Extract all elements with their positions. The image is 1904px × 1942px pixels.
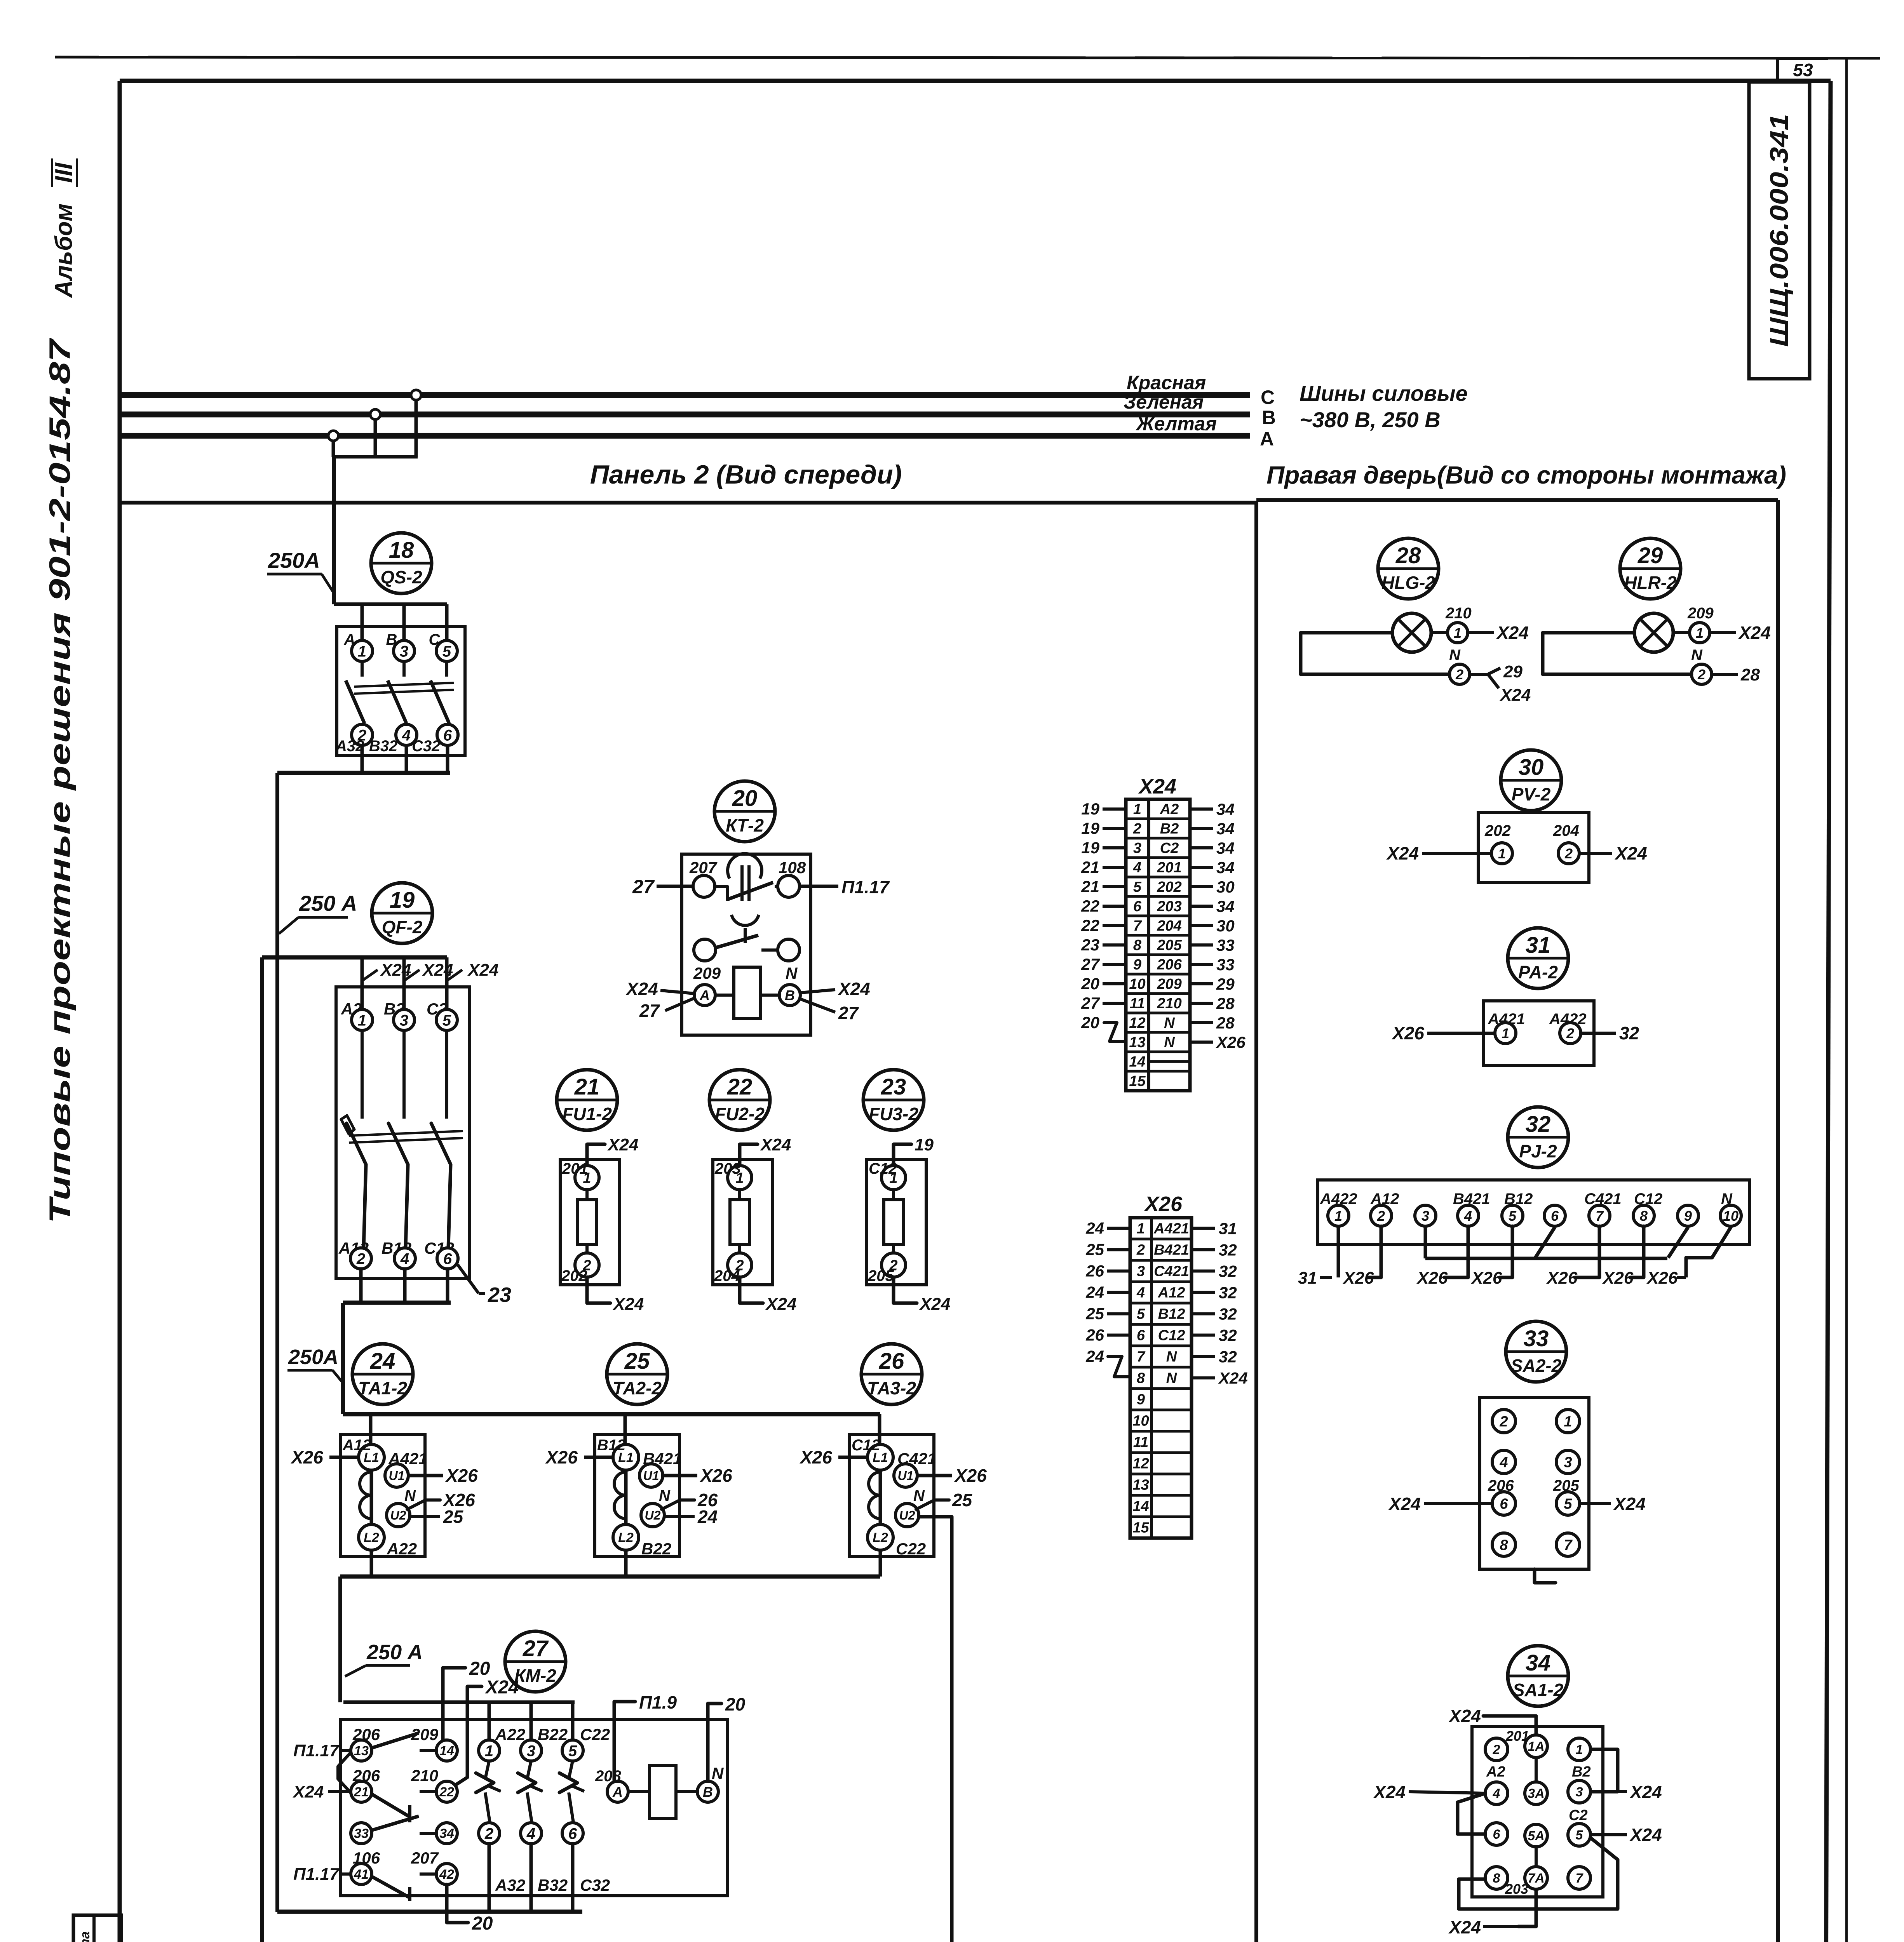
svg-text:24: 24 <box>1085 1347 1104 1366</box>
designator circle 26 ТА3-2 <box>861 1344 922 1404</box>
wire X24 terminal 2 to 34 <box>1191 820 1235 838</box>
svg-text:9: 9 <box>1684 1208 1692 1224</box>
svg-text:19: 19 <box>1081 839 1099 857</box>
SA1-2 terminal 3А <box>1525 1782 1547 1805</box>
svg-text:25: 25 <box>1085 1305 1104 1323</box>
KT-2 upper contact terminals <box>693 875 800 897</box>
svg-text:32: 32 <box>1526 1112 1551 1137</box>
SA2-2 terminal 2 <box>1492 1410 1516 1433</box>
svg-text:SА1-2: SА1-2 <box>1513 1680 1564 1700</box>
svg-text:Х24: Х24 <box>837 979 870 999</box>
wire X26 terminal 4 to 32 <box>1193 1284 1237 1302</box>
KM-2 aux contact 22 <box>436 1781 457 1802</box>
designator circle 21 FU1-2 <box>557 1070 617 1130</box>
svg-text:Х24: Х24 <box>1629 1825 1662 1845</box>
meter PJ-2 body <box>1318 1180 1749 1244</box>
svg-text:201: 201 <box>562 1160 588 1177</box>
QS-2 switch blades and linkage <box>346 661 454 723</box>
svg-text:250А: 250А <box>268 548 320 573</box>
wire X24 terminal 1 to 34 <box>1191 800 1235 818</box>
svg-text:N: N <box>659 1487 671 1504</box>
svg-text:В22: В22 <box>538 1725 568 1744</box>
svg-text:U2: U2 <box>899 1509 915 1523</box>
wire: P1.17 to KM-2 contact 13 <box>293 1741 351 1760</box>
svg-text:Х24: Х24 <box>1373 1782 1406 1802</box>
svg-text:6: 6 <box>443 1250 452 1267</box>
svg-text:А32: А32 <box>495 1876 525 1894</box>
wire: X24 to PV-2 terminal 1 <box>1386 843 1491 863</box>
circuit breaker QF-2 body <box>336 987 469 1279</box>
FU2-2 terminal 2 <box>728 1253 752 1277</box>
svg-text:В32: В32 <box>369 738 397 755</box>
SA1-2 terminal 3 <box>1568 1780 1590 1803</box>
svg-text:РЈ-2: РЈ-2 <box>1519 1141 1557 1161</box>
wire X26 terminal 3 to 32 <box>1193 1262 1237 1281</box>
svg-text:32: 32 <box>1619 1023 1639 1043</box>
svg-text:13: 13 <box>354 1744 369 1758</box>
wire 23 to X24 terminal 8 <box>1081 936 1125 954</box>
ТА1-2 terminal L2 <box>359 1524 384 1550</box>
svg-text:20: 20 <box>472 1913 493 1934</box>
PJ-2 terminal 4 <box>1458 1205 1479 1226</box>
svg-text:4: 4 <box>526 1825 535 1842</box>
svg-text:22: 22 <box>439 1785 454 1799</box>
svg-text:N: N <box>1691 647 1703 664</box>
ТА1-2 terminal U2 <box>387 1503 410 1527</box>
svg-text:1А: 1А <box>1528 1739 1544 1754</box>
svg-text:U1: U1 <box>898 1469 914 1483</box>
svg-text:11: 11 <box>1130 995 1145 1012</box>
panel 2 enclosure box <box>121 501 1256 1942</box>
svg-text:24: 24 <box>370 1349 395 1374</box>
svg-text:N: N <box>1164 1015 1175 1031</box>
svg-text:14: 14 <box>439 1744 454 1758</box>
svg-text:204: 204 <box>714 1267 740 1284</box>
svg-text:Зеленая: Зеленая <box>1124 391 1204 413</box>
fuse FU3-2 body <box>867 1159 926 1285</box>
KM-2 main contact 2 <box>479 1823 500 1844</box>
SA2-2 terminal 6 <box>1492 1492 1516 1515</box>
svg-text:N: N <box>1166 1370 1178 1387</box>
svg-text:250 А: 250 А <box>366 1641 423 1664</box>
svg-text:204: 204 <box>1553 822 1579 839</box>
svg-text:С421: С421 <box>1154 1263 1189 1280</box>
wire: SA2-2 terminal 5 to X24 <box>1580 1494 1646 1514</box>
switch QS-2 body <box>337 626 465 755</box>
svg-text:6: 6 <box>1551 1208 1559 1224</box>
svg-text:Х26: Х26 <box>290 1447 323 1467</box>
svg-text:Х24: Х24 <box>1386 843 1419 863</box>
wire 26 to X26 terminal 6 <box>1085 1326 1129 1344</box>
svg-text:210: 210 <box>411 1766 438 1785</box>
SA2-2 bottom stub <box>1535 1569 1556 1583</box>
svg-text:3: 3 <box>1564 1455 1572 1471</box>
wire: HLG-2 terminal 1 to X24 <box>1468 623 1529 643</box>
wire X24 terminal 12 to 28 <box>1191 1014 1235 1032</box>
wire: KT-2 right upper terminal to P1.17 <box>800 877 890 897</box>
wire X24 terminal 11 to 28 <box>1191 994 1235 1013</box>
PA-2 terminal 2 <box>1560 1023 1581 1044</box>
SA1-2 terminal 7А <box>1525 1867 1547 1889</box>
svg-text:8: 8 <box>1640 1208 1648 1224</box>
signal lamp HLR-2 <box>1634 613 1673 652</box>
wire label X24 hook to KM-2 contact 22 <box>455 1677 519 1785</box>
svg-text:ТА3-2: ТА3-2 <box>867 1378 916 1398</box>
svg-text:27: 27 <box>632 876 655 898</box>
svg-text:Х26: Х26 <box>1602 1269 1634 1288</box>
designator circle 31 PA-2 <box>1508 928 1568 988</box>
power bus B <box>121 391 1276 428</box>
wire 20 to X24 terminal 10 <box>1081 974 1125 993</box>
wire 24 to X26 terminal 1 <box>1085 1219 1129 1237</box>
svg-text:20: 20 <box>725 1694 746 1714</box>
QF-2 terminal 4 <box>394 1248 415 1269</box>
X24 tap labels on QF-2 input phases <box>362 961 498 981</box>
svg-text:20: 20 <box>469 1658 490 1679</box>
wire X24 terminal 9 to 33 <box>1191 955 1235 974</box>
wire X26 terminal 2 to 32 <box>1193 1241 1237 1259</box>
FU3-2 wire labels <box>868 1160 897 1284</box>
svg-text:Красная: Красная <box>1127 372 1206 393</box>
svg-text:А421: А421 <box>388 1450 427 1468</box>
svg-text:4: 4 <box>400 1250 409 1267</box>
svg-text:QS-2: QS-2 <box>380 567 422 587</box>
svg-text:Х26: Х26 <box>1546 1269 1578 1288</box>
svg-text:209: 209 <box>693 964 721 982</box>
KM-2 aux contact 33 <box>351 1823 372 1844</box>
PV-2 terminal 2 <box>1558 843 1579 864</box>
svg-text:FU2-2: FU2-2 <box>715 1104 765 1124</box>
svg-text:Х24: Х24 <box>1138 775 1176 798</box>
wire: PJ-2 terminal 8 to X26 <box>1602 1226 1644 1288</box>
designator circle 22 FU2-2 <box>709 1070 770 1130</box>
svg-text:22: 22 <box>1081 916 1099 934</box>
wire: PJ-2 jumper bus terminals 3-9 <box>1425 1226 1688 1258</box>
svg-text:41: 41 <box>354 1867 369 1882</box>
svg-text:1: 1 <box>358 1012 366 1029</box>
svg-text:Альбом: Альбом <box>51 204 77 298</box>
svg-text:4: 4 <box>1499 1455 1508 1471</box>
switch SA2-2 body <box>1480 1397 1589 1569</box>
svg-text:3: 3 <box>1137 1263 1145 1280</box>
svg-text:6: 6 <box>1137 1328 1145 1344</box>
current transformer ТА3-2 body <box>849 1414 934 1577</box>
wire: top feed of FU2-2 <box>740 1135 791 1166</box>
wire 22 to X24 terminal 6 <box>1081 897 1125 915</box>
SA1-2 terminal 6 <box>1485 1823 1508 1845</box>
wire 21 to X24 terminal 5 <box>1081 877 1125 896</box>
svg-text:201: 201 <box>1157 860 1181 876</box>
svg-text:РА-2: РА-2 <box>1518 962 1558 982</box>
svg-text:27: 27 <box>523 1636 549 1661</box>
wire: X24 to KM-2 contact 21 <box>292 1782 351 1801</box>
KM-2 coil terminal B <box>697 1781 718 1802</box>
svg-text:204: 204 <box>1157 918 1181 934</box>
svg-text:28: 28 <box>1216 994 1235 1013</box>
svg-text:1: 1 <box>1564 1414 1572 1430</box>
svg-text:Панель 2 (Вид спереди): Панель 2 (Вид спереди) <box>590 460 902 489</box>
svg-text:Х26: Х26 <box>1144 1192 1183 1216</box>
svg-text:III: III <box>51 162 77 183</box>
svg-text:Х24: Х24 <box>380 961 411 980</box>
svg-text:Х24: Х24 <box>1738 623 1771 643</box>
wire X26 terminal 6 to 32 <box>1193 1326 1237 1345</box>
contactor KM-2 body <box>341 1719 728 1896</box>
svg-text:П1.17: П1.17 <box>293 1741 340 1760</box>
wire 20 to X24 terminal 12 <box>1081 1013 1125 1041</box>
wire: P1.17 to KM-2 contact 41 <box>293 1865 351 1884</box>
svg-text:1: 1 <box>1137 1221 1145 1237</box>
svg-text:6: 6 <box>568 1825 577 1842</box>
svg-text:П1.9: П1.9 <box>639 1692 677 1712</box>
wire: bus taps down to QS-2 feed <box>332 399 418 604</box>
designator circle 19 QF-2 <box>372 883 432 943</box>
wire 26 to X26 terminal 3 <box>1085 1262 1129 1280</box>
QS-2 terminal 4 <box>396 724 417 745</box>
PA-2 terminal 1 <box>1495 1023 1516 1044</box>
svg-text:8: 8 <box>1500 1537 1508 1554</box>
designator circle 29 HLR-2 <box>1620 538 1681 599</box>
svg-text:25: 25 <box>952 1490 973 1510</box>
ТА3-2 winding labels <box>852 1437 936 1558</box>
svg-text:18: 18 <box>389 538 414 563</box>
svg-text:2: 2 <box>1564 846 1573 861</box>
SA2-2 terminal 8 <box>1492 1533 1516 1556</box>
wire: PJ-2 terminal 2 hook <box>1368 1226 1381 1277</box>
svg-text:4: 4 <box>1136 1285 1145 1301</box>
ТА1-2 terminal L1 <box>359 1444 384 1470</box>
svg-text:202: 202 <box>561 1267 587 1284</box>
svg-text:1: 1 <box>1502 1025 1509 1041</box>
wire: SA1-2 terminal 5 to X24 <box>1590 1825 1662 1845</box>
svg-text:С22: С22 <box>580 1725 610 1744</box>
FU1-2 terminal 2 <box>575 1253 599 1277</box>
KM-2 aux contact 34 <box>436 1823 457 1844</box>
wire: HLR-2 terminal 2 leads <box>1712 665 1760 684</box>
terminal strip X26 <box>1130 1192 1192 1538</box>
wire X24 terminal 7 to 30 <box>1191 917 1235 935</box>
wire 21 to X24 terminal 4 <box>1081 858 1125 876</box>
voltmeter PV-2 body <box>1478 813 1589 882</box>
svg-text:В32: В32 <box>538 1876 568 1894</box>
wire: QS-2 outputs to bus <box>277 745 450 773</box>
PJ-2 terminal 1 <box>1328 1205 1349 1226</box>
ТА2-2 winding labels <box>597 1437 682 1558</box>
svg-text:П1.17: П1.17 <box>293 1865 340 1884</box>
svg-text:3А: 3А <box>1528 1786 1544 1801</box>
svg-text:В2: В2 <box>1160 821 1179 837</box>
svg-text:7: 7 <box>1137 1349 1146 1365</box>
QF-2 terminal 6 <box>437 1248 458 1269</box>
svg-text:А2: А2 <box>1160 801 1179 818</box>
SA2-2 terminal 1 <box>1556 1410 1580 1433</box>
svg-text:2: 2 <box>1697 666 1705 682</box>
QF-2 breaker blades and linkage <box>341 1030 463 1248</box>
svg-text:А32: А32 <box>335 738 364 755</box>
svg-text:10: 10 <box>1132 1413 1149 1429</box>
wire: X26 to ТА1-2 L1 <box>290 1447 359 1467</box>
svg-text:L2: L2 <box>364 1530 379 1545</box>
svg-text:34: 34 <box>1216 858 1235 877</box>
svg-text:5: 5 <box>1509 1208 1517 1224</box>
fuse FU2-2 body <box>713 1159 772 1285</box>
svg-text:2: 2 <box>484 1825 493 1842</box>
svg-text:N: N <box>1166 1349 1178 1365</box>
svg-text:Х24: Х24 <box>484 1677 519 1698</box>
wire X24 terminal 8 to 33 <box>1191 936 1235 954</box>
HLG-2 terminal 2 and N label <box>1449 647 1461 664</box>
SA1-2 terminal 1А <box>1525 1735 1547 1758</box>
svg-text:В: В <box>785 987 795 1003</box>
svg-text:31: 31 <box>1219 1220 1237 1238</box>
HLR-2 terminal 1 and wiring <box>1673 605 1714 633</box>
QS-2 terminal 6 <box>437 724 458 745</box>
svg-text:21: 21 <box>1081 858 1099 876</box>
svg-text:Х24: Х24 <box>1499 686 1531 705</box>
designator circle 28 HLG-2 <box>1378 538 1439 599</box>
svg-text:Правая дверь(Вид со стороны м: Правая дверь(Вид со стороны монтажа) <box>1266 461 1786 489</box>
ТА1-2 terminal U1 <box>385 1464 408 1487</box>
bus tap junction dots <box>328 390 421 441</box>
wire X24 terminal 6 to 34 <box>1191 897 1235 915</box>
wire 27 to X24 terminal 11 <box>1081 994 1125 1012</box>
QF-2 lower phase labels A12 B12 C12 <box>338 1239 454 1257</box>
svg-text:205: 205 <box>868 1267 894 1284</box>
svg-text:42: 42 <box>439 1867 454 1882</box>
KM-2 aux contact 42 <box>436 1864 457 1885</box>
svg-text:1: 1 <box>1498 846 1506 861</box>
svg-text:32: 32 <box>1219 1305 1237 1323</box>
wire 27 to X24 terminal 9 <box>1081 955 1125 973</box>
svg-text:19: 19 <box>1081 800 1099 818</box>
wire 24 to X26 terminal 4 <box>1085 1283 1129 1302</box>
svg-text:А22: А22 <box>387 1540 417 1558</box>
wire 22 to X24 terminal 7 <box>1081 916 1125 934</box>
svg-text:Х26: Х26 <box>1646 1269 1678 1288</box>
svg-text:22: 22 <box>1081 897 1099 915</box>
svg-text:С22: С22 <box>896 1540 926 1558</box>
svg-text:А: А <box>699 987 710 1003</box>
svg-text:7: 7 <box>1596 1208 1604 1224</box>
svg-text:2: 2 <box>1499 1414 1508 1430</box>
svg-text:25: 25 <box>443 1507 464 1527</box>
label 23 with leader from QF-2 terminal 6 <box>458 1265 511 1307</box>
svg-text:В421: В421 <box>643 1450 682 1468</box>
wire: QF-2 outputs to bus and down to TA row <box>343 1269 451 1414</box>
svg-text:Х26: Х26 <box>1216 1033 1246 1051</box>
svg-text:1: 1 <box>1454 625 1462 641</box>
wire: HLG-2 terminal 2 leads <box>1470 662 1531 705</box>
wire: ТА3-2 U1 to X26 <box>917 1465 987 1486</box>
wire label 20 hook to KM-2 contact 14 <box>443 1658 490 1740</box>
wire: 27 to KT-2 left upper terminal <box>632 876 693 898</box>
svg-text:SА2-2: SА2-2 <box>1511 1356 1562 1376</box>
FU3-2 terminal 2 <box>881 1253 906 1277</box>
svg-text:207: 207 <box>411 1849 439 1867</box>
ТА2-2 terminal U1 <box>639 1464 663 1487</box>
current transformer ТА1-2 body <box>340 1414 425 1577</box>
svg-text:5: 5 <box>442 1012 451 1029</box>
wire: top feed of FU1-2 <box>587 1135 638 1166</box>
wire: X26 to ТА2-2 L1 <box>545 1447 613 1467</box>
terminal strip X24 <box>1126 775 1190 1091</box>
svg-text:2: 2 <box>1493 1742 1500 1757</box>
svg-text:2: 2 <box>1136 1242 1145 1258</box>
wire X26 terminal 8 to Х24 <box>1193 1369 1248 1387</box>
KM-2 coil <box>595 1764 724 1818</box>
SA1-2 terminal 1 <box>1568 1738 1590 1761</box>
wire: ТА1-2 U1 to X26 <box>408 1465 478 1486</box>
svg-text:30: 30 <box>1216 878 1235 896</box>
PJ-2 terminal 5 <box>1502 1205 1523 1226</box>
svg-text:Х26: Х26 <box>954 1465 987 1486</box>
svg-text:22: 22 <box>727 1074 753 1100</box>
svg-text:23: 23 <box>488 1283 511 1307</box>
SA1-2 jumper 1 to 3 <box>1590 1749 1618 1792</box>
svg-text:U1: U1 <box>389 1469 405 1483</box>
svg-text:A: A <box>1260 428 1274 450</box>
wire X26 terminal 5 to 32 <box>1193 1305 1237 1323</box>
svg-text:HLR-2: HLR-2 <box>1624 573 1677 593</box>
svg-text:6: 6 <box>443 727 452 744</box>
ammeter PA-2 body <box>1483 1001 1594 1065</box>
svg-text:Х24: Х24 <box>612 1295 644 1314</box>
svg-text:Х24: Х24 <box>1496 623 1529 643</box>
designator circle 32 PJ-2 <box>1508 1107 1568 1168</box>
QF-2 terminal 2 <box>350 1248 371 1269</box>
svg-text:27: 27 <box>1081 955 1100 973</box>
right door enclosure box <box>1256 500 1778 1942</box>
svg-text:Х24: Х24 <box>1218 1369 1248 1387</box>
svg-text:27: 27 <box>639 1001 660 1021</box>
wire 19 to X24 terminal 3 <box>1081 839 1125 857</box>
svg-text:34: 34 <box>439 1826 454 1841</box>
KM-2 main contact 5 <box>562 1740 583 1761</box>
HLG-2 terminal 1 and wiring <box>1431 605 1472 633</box>
svg-text:33: 33 <box>1524 1326 1549 1351</box>
wire X24 terminal 10 to 29 <box>1191 975 1235 993</box>
svg-text:FU3-2: FU3-2 <box>869 1104 918 1124</box>
svg-text:34: 34 <box>1526 1650 1551 1676</box>
wire X24 terminal 13 to Х26 <box>1191 1033 1246 1051</box>
svg-text:25: 25 <box>1085 1241 1104 1259</box>
FU1-2 terminal 1 <box>575 1166 599 1190</box>
svg-text:19: 19 <box>1081 819 1099 837</box>
SA1-2 terminal 5 <box>1568 1824 1590 1846</box>
wire X24 terminal 3 to 34 <box>1191 839 1235 857</box>
wire: PA-2 terminal 2 to 32 <box>1581 1023 1639 1043</box>
svg-text:1: 1 <box>358 643 366 660</box>
KM-2 main contact 6 <box>562 1823 583 1844</box>
SA2-2 terminal 3 <box>1556 1450 1580 1474</box>
wire: X26 to PA-2 terminal 1 <box>1391 1023 1495 1043</box>
svg-text:250 А: 250 А <box>299 891 357 915</box>
wire 24 to X26 terminal 7 <box>1085 1347 1129 1377</box>
svg-text:11: 11 <box>1133 1434 1148 1451</box>
KM-2 main contact 3 <box>521 1740 542 1761</box>
bus caption: Shiny silovye ~380V 250V <box>1300 381 1468 432</box>
svg-text:31: 31 <box>1298 1269 1317 1288</box>
SA2-2 terminal 7 <box>1556 1533 1580 1556</box>
svg-text:26: 26 <box>879 1349 904 1374</box>
wire X24 terminal 5 to 30 <box>1191 878 1235 896</box>
svg-text:6: 6 <box>1500 1496 1508 1512</box>
svg-text:1: 1 <box>485 1742 493 1759</box>
svg-text:4: 4 <box>1464 1208 1472 1224</box>
svg-text:N: N <box>1449 647 1461 664</box>
SA1-2 jumper 5 to 8 (around bottom) <box>1459 1837 1618 1909</box>
svg-text:209: 209 <box>1687 605 1714 622</box>
